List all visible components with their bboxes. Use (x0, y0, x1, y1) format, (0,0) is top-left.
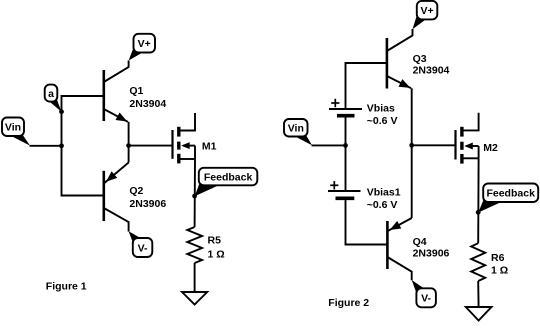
transistor Q3 (387, 29, 413, 89)
wire Vin2 to bias node (312, 144, 346, 146)
mosfet M1 (173, 113, 196, 163)
battery Vbias (329, 99, 362, 116)
svg-text:Figure 2: Figure 2 (328, 297, 369, 309)
junction dot bias node (343, 143, 348, 148)
wire R6 to ground (477, 281, 479, 307)
input bubble Vin (Figure 2) (284, 119, 312, 145)
label M1 (202, 141, 217, 153)
wire M1 gate (129, 145, 173, 147)
feedback bubble fig1 (195, 168, 258, 196)
svg-text:~0.6 V: ~0.6 V (367, 115, 398, 127)
label Q2 (129, 185, 143, 197)
label Q3 (413, 53, 427, 65)
transistor Q2 (104, 163, 129, 232)
wire M2 source to feedback node (477, 158, 479, 243)
wire base bus fig1 (62, 96, 104, 196)
label M2 (483, 142, 498, 154)
wire emitter node fig1 (128, 122, 130, 163)
junction dot input node fig1 (59, 143, 64, 148)
label 1 ohm (R5) (208, 249, 225, 261)
svg-text:R5: R5 (208, 235, 222, 247)
label R5 (208, 235, 222, 247)
ground fig2 (466, 307, 492, 321)
svg-text:V+: V+ (138, 38, 151, 50)
svg-text:M1: M1 (202, 141, 217, 153)
node a bubble (45, 85, 62, 112)
svg-text:~0.6 V: ~0.6 V (367, 199, 398, 211)
wire Q3 base branch (346, 63, 387, 109)
svg-text:2N3904: 2N3904 (129, 98, 166, 110)
label Q1 (129, 85, 143, 97)
svg-text:Q4: Q4 (413, 236, 427, 248)
power bubble V+ fig2 (413, 1, 438, 29)
wire Vbias1 to Q4 base (346, 200, 388, 244)
svg-text:M2: M2 (483, 142, 498, 154)
label 2N3904 (Q1) (129, 98, 166, 110)
wire Vin to input node (30, 145, 62, 147)
power bubble V- fig1 (129, 231, 153, 257)
resistor R5 (187, 227, 202, 263)
svg-text:Vin: Vin (288, 123, 304, 135)
svg-text:Vin: Vin (5, 122, 21, 134)
svg-text:Q2: Q2 (129, 185, 143, 197)
ground fig1 (182, 292, 207, 305)
svg-text:1 Ω: 1 Ω (208, 249, 225, 261)
junction dot gate node fig1 (126, 143, 131, 148)
wire Vbias to node (345, 118, 347, 192)
label 2N3904 (Q3) (413, 65, 450, 77)
svg-text:2N3904: 2N3904 (413, 65, 450, 77)
svg-text:Feedback: Feedback (204, 171, 253, 183)
wire M2 gate (412, 144, 456, 146)
svg-text:V+: V+ (421, 5, 434, 17)
label R6 (491, 252, 505, 264)
svg-text:Vbias1: Vbias1 (367, 187, 401, 199)
resistor R6 (471, 243, 485, 281)
transistor Q4 (387, 218, 411, 280)
label 1 ohm (R6) (491, 265, 508, 277)
wire M1 source to feedback node (194, 159, 196, 227)
junction dot gate node fig2 (409, 143, 414, 148)
label 2N3906 (Q4) (413, 247, 450, 259)
svg-text:R6: R6 (491, 252, 505, 264)
label Vbias (367, 102, 395, 114)
label Figure 2 (328, 297, 369, 309)
svg-text:1 Ω: 1 Ω (491, 265, 508, 277)
svg-text:a: a (48, 88, 54, 100)
label ~0.6 V (Vbias) (367, 115, 398, 127)
label Vbias1 (367, 187, 401, 199)
svg-text:V-: V- (421, 293, 431, 305)
svg-text:2N3906: 2N3906 (413, 247, 450, 259)
input bubble Vin (Figure 1) (2, 118, 30, 146)
wire emitter node fig2 (411, 88, 413, 218)
svg-text:Figure 1: Figure 1 (46, 281, 87, 293)
junction dot feedback fig2 (476, 210, 481, 215)
svg-text:Q1: Q1 (129, 85, 143, 97)
feedback bubble fig2 (478, 184, 538, 213)
svg-text:Feedback: Feedback (486, 188, 535, 200)
transistor Q1 (104, 61, 129, 122)
power bubble V- fig2 (412, 280, 436, 307)
junction dot node a (59, 109, 64, 114)
battery Vbias1 (328, 181, 361, 198)
svg-text:V-: V- (138, 242, 148, 254)
label ~0.6 V (Vbias1) (367, 199, 398, 211)
label Q4 (413, 236, 427, 248)
label 2N3906 (Q2) (129, 198, 166, 210)
svg-text:Vbias: Vbias (367, 102, 395, 114)
power bubble V+ fig1 (129, 34, 155, 61)
mosfet M2 (456, 113, 479, 164)
junction dot feedback fig1 (192, 194, 197, 199)
svg-text:2N3906: 2N3906 (129, 198, 166, 210)
label Figure 1 (46, 281, 87, 293)
wire R5 to ground (194, 263, 196, 292)
svg-text:Q3: Q3 (413, 53, 427, 65)
